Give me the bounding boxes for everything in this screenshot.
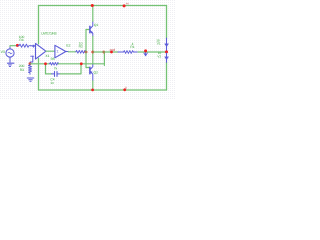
- svg-text:R3: R3: [20, 68, 24, 72]
- svg-text:R1: R1: [130, 45, 134, 49]
- svg-text:V1: V1: [157, 41, 161, 45]
- svg-text:LM7171/NS: LM7171/NS: [41, 31, 56, 35]
- svg-text:1n: 1n: [50, 81, 54, 85]
- resistor R2: [76, 50, 86, 53]
- svg-text:R5: R5: [51, 57, 55, 61]
- svg-text:R2: R2: [79, 45, 83, 49]
- junction dot base node: [85, 51, 88, 54]
- wire Q1 base stub: [86, 29, 89, 31]
- svg-text:E2: E2: [66, 43, 70, 47]
- ground below R3: [27, 78, 33, 81]
- wire R4 to op-amp: [31, 45, 36, 47]
- svg-text:0: 0: [125, 86, 127, 90]
- junction dot bottom rail: [91, 89, 94, 92]
- wire C4 branch left: [46, 64, 52, 74]
- svg-text:Q1: Q1: [94, 23, 99, 27]
- svg-text:1: 1: [57, 50, 59, 54]
- junction dot out label: [110, 51, 113, 54]
- wire V1 top drop: [166, 6, 168, 39]
- resistor R3: [28, 65, 31, 75]
- voltage source V1: [165, 38, 169, 50]
- junction dot feedback tap: [102, 51, 105, 54]
- junction dot supply mid: [165, 50, 168, 53]
- wire feedback riser to out: [103, 52, 105, 65]
- transistor Q1: [90, 21, 93, 36]
- wire U1 output: [46, 50, 55, 52]
- wire V3 to R4: [10, 45, 18, 48]
- op-amp X1: [31, 43, 46, 59]
- svg-text:V2: V2: [157, 55, 161, 59]
- svg-text:X1: X1: [45, 54, 49, 58]
- wire R1 left lead: [118, 51, 124, 53]
- svg-text:V3: V3: [1, 50, 5, 54]
- resistor R1: [124, 51, 134, 54]
- wire R1 to supply mid: [138, 51, 167, 53]
- wire feedback node: [30, 63, 50, 65]
- junction dot output node: [91, 51, 94, 54]
- junction dot input net: [16, 44, 19, 47]
- junction dot C4 right: [80, 62, 83, 65]
- wire bases vertical: [85, 30, 87, 68]
- wire emitters vertical: [92, 36, 94, 64]
- junction dot C4 left: [44, 62, 47, 65]
- voltage source V3: [6, 46, 14, 62]
- capacitor C4: [52, 72, 61, 77]
- junction dot bottom rail right: [123, 88, 126, 91]
- wire C4 branch right: [60, 64, 81, 74]
- junction dot top rail: [91, 4, 94, 7]
- probe marker: [144, 52, 147, 56]
- ground below V3: [8, 63, 14, 66]
- buffer E2: [55, 45, 66, 58]
- transistor Q2: [90, 64, 93, 81]
- svg-text:R4: R4: [19, 38, 23, 42]
- resistor R5 feedback: [50, 63, 59, 66]
- wire output run: [93, 51, 118, 53]
- junction dot probe: [144, 49, 147, 52]
- wire V2 bottom drop: [166, 62, 168, 90]
- wire feedback right: [58, 63, 104, 65]
- junction dot top rail net label: [123, 4, 126, 7]
- wire E2 output: [66, 51, 68, 53]
- wire inverting input: [30, 56, 33, 64]
- wire U1 V- drop to bottom rail: [38, 58, 40, 90]
- svg-text:7k: 7k: [54, 66, 58, 70]
- junction dot feedback left: [29, 62, 32, 65]
- wire Q2 collector to bottom rail: [92, 81, 94, 90]
- resistor R4: [18, 44, 31, 47]
- wire V+ top rail: [39, 5, 167, 7]
- svg-text:+v: +v: [126, 1, 130, 5]
- wire R1 right lead: [133, 51, 138, 53]
- svg-text:Q2: Q2: [94, 71, 99, 75]
- wire U1 V+ drop: [38, 6, 40, 44]
- wire Q1 collector: [92, 6, 94, 22]
- wire bottom rail: [39, 89, 167, 91]
- wire Q2 base stub: [86, 67, 89, 69]
- voltage source V2: [165, 53, 169, 62]
